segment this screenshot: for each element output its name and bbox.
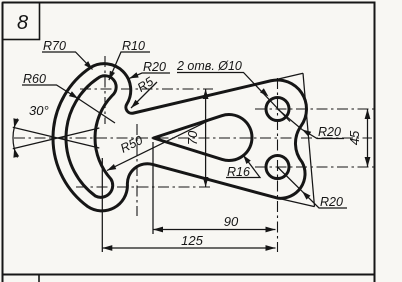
svg-text:2 отв. Ø10: 2 отв. Ø10 xyxy=(176,59,242,73)
part outline (R20 head boss, R5 fillet, upper tangent line, R20 top boss, R20 waist, R20 bottom boss, lower tangent line, bottom lobe, R70 outer arc) xyxy=(53,64,306,211)
30-deg arc arrows xyxy=(13,148,19,157)
svg-text:45: 45 xyxy=(347,130,362,145)
triangular cutout with R16 round end xyxy=(154,114,253,160)
hole bottom (Ø10) xyxy=(266,156,289,179)
dimension 125 line xyxy=(102,247,275,249)
construction line right side A-B xyxy=(303,73,315,206)
30-deg ray lower xyxy=(13,128,100,149)
90-dim extension line from apex xyxy=(152,142,154,234)
svg-text:8: 8 xyxy=(17,12,28,34)
lobe horizontal centerline (70-dim bottom extension) xyxy=(76,186,213,188)
construction line upper (L1 extension to corner A) xyxy=(271,73,303,81)
svg-text:90: 90 xyxy=(224,214,239,229)
hole top (Ø10) xyxy=(266,98,289,121)
svg-text:R20: R20 xyxy=(318,125,341,139)
svg-text:R60: R60 xyxy=(23,72,46,86)
30-deg ray upper xyxy=(13,127,100,148)
head vertical centerline xyxy=(104,56,106,124)
dimension 90 line xyxy=(153,229,276,231)
svg-text:R70: R70 xyxy=(43,39,66,53)
bottom hole horizontal centerline (45-dim extension) xyxy=(255,166,374,168)
head horizontal centerline (70-dim top extension) xyxy=(80,88,213,90)
main horizontal centerline xyxy=(14,137,372,139)
construction line lower (L2 extension to corner B) xyxy=(277,198,314,207)
30-deg dimension arc xyxy=(13,118,18,157)
svg-text:R10: R10 xyxy=(122,39,145,53)
holes vertical centerline (extends to dims) xyxy=(277,78,279,252)
dimension 45 line xyxy=(367,109,369,167)
dimension 45 arrows xyxy=(365,109,371,119)
dimension 90 arrows xyxy=(153,227,163,233)
svg-text:R20: R20 xyxy=(143,60,166,74)
svg-text:R20: R20 xyxy=(320,195,343,209)
dimension 70 arrows xyxy=(203,89,209,99)
dimension 125 arrows xyxy=(102,245,112,251)
figure number box xyxy=(3,3,40,40)
svg-text:30°: 30° xyxy=(29,103,49,118)
svg-text:125: 125 xyxy=(181,233,203,248)
kidney center vertical centerline xyxy=(136,124,138,216)
svg-text:70: 70 xyxy=(185,130,200,145)
top hole horizontal centerline (45-dim extension) xyxy=(255,108,374,110)
125-dim extension line from lobe center xyxy=(101,158,103,252)
kidney slot (R10 round, R50 arc, bottom round, R60 arc) xyxy=(66,76,116,198)
dimension 70 line xyxy=(205,89,207,187)
title block tick xyxy=(38,275,40,282)
